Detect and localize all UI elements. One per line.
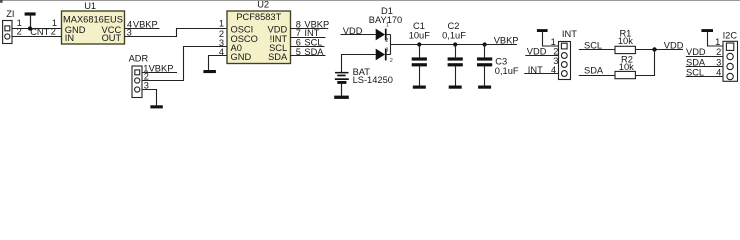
svg-text:SCL: SCL — [304, 38, 322, 48]
wire I2C pin3 (net SDA) — [686, 66, 723, 68]
svg-text:10k: 10k — [619, 62, 634, 72]
svg-text:2: 2 — [553, 46, 558, 56]
ground bar under U2 — [203, 70, 216, 73]
svg-text:2: 2 — [385, 38, 388, 44]
wire ZI pin1 to U1 GND (net GND) — [12, 28, 62, 30]
wire ADR pin1 stub (net VBKP) — [142, 72, 177, 74]
svg-text:10uF: 10uF — [409, 30, 431, 40]
wire U2 pin7 !INT stub (net INT) — [291, 37, 326, 39]
wire U2 pin6 SCL stub (net SCL) — [291, 46, 325, 48]
svg-text:SDA: SDA — [584, 66, 604, 76]
svg-text:I2C: I2C — [723, 30, 738, 40]
svg-text:5: 5 — [296, 47, 301, 57]
svg-text:LS-14250: LS-14250 — [353, 75, 393, 85]
svg-text:OUT: OUT — [102, 33, 122, 43]
capacitor C3 — [483, 42, 487, 46]
wire U1 OUT pin3 to U2 OSCI pin1 — [125, 29, 228, 37]
svg-text:1: 1 — [219, 19, 224, 29]
svg-text:1: 1 — [715, 37, 720, 47]
wire I2C pin2 (net VDD) — [686, 56, 723, 58]
diode D1 bottom (BAT side) — [376, 49, 385, 61]
svg-text:INT: INT — [528, 65, 543, 75]
svg-text:SDA: SDA — [686, 57, 706, 67]
svg-text:0,1uF: 0,1uF — [495, 66, 519, 76]
svg-text:VDD: VDD — [686, 47, 706, 57]
frame top edge — [0, 0, 740, 1]
ground bar under ADR — [150, 105, 162, 108]
connector ADR — [132, 66, 142, 98]
connector ZI — [3, 21, 12, 44]
ground bar under battery — [334, 96, 349, 99]
svg-text:PCF8583T: PCF8583T — [236, 12, 281, 22]
svg-text:SDA: SDA — [268, 52, 288, 62]
svg-text:VDD: VDD — [527, 46, 547, 56]
svg-text:4: 4 — [716, 68, 721, 78]
svg-text:VDD: VDD — [664, 40, 684, 50]
resistor R2 — [615, 71, 635, 78]
battery BAT LS-14250 — [335, 72, 349, 74]
ground bar under C2 — [449, 86, 462, 89]
svg-text:CNT: CNT — [30, 27, 49, 37]
svg-text:SCL: SCL — [686, 68, 704, 78]
wire INT pin4 (net INT) — [524, 73, 558, 75]
junction dot VDD — [652, 47, 656, 51]
IC U2 PCF8583T — [227, 11, 291, 64]
svg-text:ZI: ZI — [6, 9, 14, 19]
wire U2 GND pin4 to ground — [209, 56, 228, 71]
svg-text:SDA: SDA — [304, 47, 324, 57]
svg-text:MAX6816EUS: MAX6816EUS — [63, 14, 123, 24]
svg-text:ADR: ADR — [129, 54, 149, 64]
svg-text:6: 6 — [296, 38, 301, 48]
svg-text:U2: U2 — [257, 0, 269, 10]
ground symbol (up T) at ZI — [25, 12, 36, 15]
svg-text:VBKP: VBKP — [149, 63, 174, 73]
ground bar under C1 — [413, 86, 426, 89]
wire U2 pin8 VDD stub (net VBKP) — [291, 28, 329, 30]
svg-text:IN: IN — [65, 33, 74, 43]
svg-text:C1: C1 — [413, 21, 425, 31]
svg-text:2: 2 — [716, 47, 721, 57]
svg-text:INT: INT — [562, 29, 577, 39]
wire ZI pin2 to U1 IN (net CNT) — [12, 36, 62, 38]
ground symbol (up T) at I2C pin1 — [701, 29, 713, 32]
ground symbol (up T) at INT pin1 — [537, 29, 548, 32]
svg-text:4: 4 — [219, 47, 224, 57]
svg-text:VBKP: VBKP — [133, 19, 158, 29]
wire I2C pin4 (net SCL) — [686, 76, 723, 78]
resistor R1 — [615, 46, 635, 53]
junction dot ZI/GND — [28, 26, 32, 30]
wire U2 pin5 SDA stub (net SDA) — [291, 55, 326, 57]
wire BAT to D1 bottom anode — [342, 55, 376, 73]
svg-text:0,1uF: 0,1uF — [442, 30, 466, 40]
svg-text:3: 3 — [127, 28, 132, 38]
svg-text:3: 3 — [144, 81, 149, 91]
svg-text:VBKP: VBKP — [494, 36, 519, 46]
wire ADR pin3 to ground — [142, 90, 157, 106]
svg-text:C3: C3 — [495, 57, 507, 67]
svg-text:U1: U1 — [84, 1, 96, 11]
wire D1 cathode link and output tap to bus — [387, 35, 518, 55]
wire INT pin2 (net VDD) — [525, 55, 558, 57]
svg-text:SCL: SCL — [584, 40, 602, 50]
ground bar under C3 — [478, 86, 491, 89]
svg-text:4: 4 — [551, 65, 556, 75]
wire U1 VCC stub (net VBKP), pin 4 — [125, 28, 160, 30]
connector I2C — [723, 41, 738, 81]
svg-text:C2: C2 — [448, 21, 460, 31]
svg-text:GND: GND — [231, 52, 252, 62]
svg-text:10k: 10k — [618, 36, 633, 46]
svg-text:3: 3 — [716, 57, 721, 67]
svg-text:1: 1 — [386, 22, 389, 28]
connector INT — [559, 42, 571, 80]
svg-text:3: 3 — [385, 48, 388, 54]
wire U2 A0 pin3 to ADR pin2 — [142, 47, 227, 81]
svg-text:2: 2 — [17, 27, 22, 37]
wire R2 to VDD junction — [635, 50, 654, 76]
op-amp? no: IC U1 MAX6816EUS — [62, 11, 125, 44]
svg-text:2: 2 — [51, 27, 56, 37]
svg-text:2: 2 — [390, 58, 393, 64]
